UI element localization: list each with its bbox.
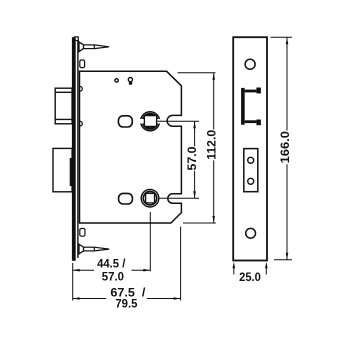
- svg-text:25.0: 25.0: [239, 270, 261, 284]
- deadbolt: [53, 148, 72, 191]
- lower follower (square spindle hub): [141, 189, 159, 207]
- small 8-shaped hole: [128, 78, 132, 85]
- dim 25.0 arrows: [234, 266, 266, 275]
- pin bump upper: [80, 87, 82, 92]
- latch opening with latchbolt: [241, 88, 261, 126]
- lock case outline: [80, 71, 182, 223]
- dim line 57.0 vertical: [194, 121, 196, 198]
- dim line 166.0 vertical: [286, 37, 288, 259]
- svg-text:112.0: 112.0: [204, 130, 218, 160]
- dim: 166 top extension: [271, 36, 293, 38]
- dim: 166 bottom extension: [274, 259, 292, 261]
- faceplate top cap: [75, 37, 79, 41]
- dim: extension line from lower follower: [159, 197, 200, 199]
- bottom screw: [79, 244, 109, 254]
- latch bolt: [55, 88, 72, 124]
- dim: extension line from upper follower: [157, 120, 199, 122]
- dim: extension right of case: [180, 227, 182, 301]
- dim: extension below lower follower: [149, 212, 151, 271]
- faceplate outer bar: [72, 37, 79, 261]
- pin bump lower: [80, 121, 82, 126]
- lower oval hole: [119, 193, 133, 204]
- upper oval hole: [118, 116, 132, 127]
- upper follower (square spindle hub): [140, 112, 160, 131]
- dim: 112 top extension: [178, 72, 216, 74]
- deadbolt opening: [244, 149, 258, 192]
- right view: faceplate front: [233, 37, 267, 260]
- label 112.0 (vertical): [205, 130, 216, 161]
- dim: 112 bottom extension: [183, 222, 216, 224]
- bottom screw hole: [246, 228, 256, 238]
- dim line 44.5/57.0: [73, 269, 151, 271]
- svg-text:166.0: 166.0: [278, 131, 292, 163]
- svg-text:79.5: 79.5: [115, 296, 137, 310]
- label 57.0 (vertical): [187, 146, 198, 171]
- dim line 112.0 vertical: [213, 73, 215, 223]
- top screw hole: [245, 59, 255, 69]
- svg-text:57.0: 57.0: [185, 146, 199, 170]
- inner forend plate bar: [77, 41, 78, 259]
- dim: extension below faceplate: [72, 263, 74, 301]
- small hole dot: [115, 79, 118, 82]
- top fixing tab: [80, 60, 85, 68]
- dim line 67.5/79.5: [73, 298, 181, 300]
- bottom fixing tab: [80, 229, 85, 237]
- top screw: [79, 42, 109, 52]
- label 166.0 (vertical): [279, 131, 290, 165]
- svg-text:57.0: 57.0: [102, 269, 124, 283]
